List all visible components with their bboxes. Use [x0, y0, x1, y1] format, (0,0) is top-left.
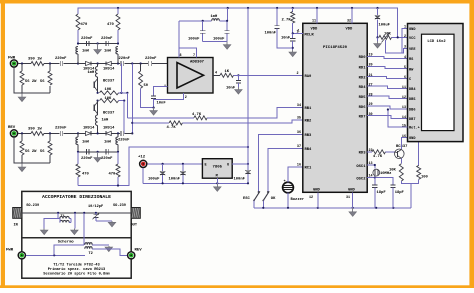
svg-text:3: 3	[404, 46, 406, 50]
svg-text:Schermo: Schermo	[58, 240, 75, 245]
svg-text:220nF: 220nF	[118, 138, 130, 142]
ground bias REV	[94, 152, 102, 162]
svg-text:100nF: 100nF	[213, 38, 225, 42]
svg-text:2: 2	[296, 72, 298, 76]
ground T1 left	[40, 229, 48, 235]
svg-text:RB2: RB2	[305, 120, 313, 124]
crystal X1 10MHz	[373, 169, 392, 176]
wire +5V top rail	[78, 7, 398, 38]
connector SO-239 IN	[13, 204, 39, 228]
svg-text:50: 50	[144, 84, 149, 88]
ground AD8307 supply	[203, 42, 231, 50]
wire buzzer to RC1	[288, 167, 303, 208]
svg-text:1mH: 1mH	[82, 141, 90, 145]
ground 10nF pin1	[150, 108, 158, 116]
svg-text:6: 6	[404, 76, 406, 80]
wire FWR to attenuator	[14, 62, 50, 93]
svg-text:100nF: 100nF	[169, 177, 181, 181]
svg-text:220nF: 220nF	[145, 57, 157, 61]
wire bottom ground rail	[254, 207, 411, 209]
connector SO-239 OUT	[113, 204, 140, 228]
pin GND 12	[309, 189, 321, 208]
wire AD8307 supply	[179, 21, 197, 58]
resistor 4.7K RB1 label	[192, 113, 202, 117]
pin RD7 30 wire to LCD	[359, 113, 408, 120]
svg-text:REV: REV	[135, 249, 143, 253]
svg-text:29: 29	[369, 103, 373, 107]
wire T2 to REV connector	[92, 249, 127, 256]
svg-text:RD0: RD0	[359, 56, 367, 60]
microcontroller U1 PIC18F4520	[303, 23, 367, 192]
pin GND 31	[346, 189, 356, 208]
capacitor 100uF input	[148, 164, 165, 183]
svg-text:220nF: 220nF	[101, 37, 113, 41]
resistor 2.7K MCLR pullup	[282, 12, 295, 31]
svg-text:220nF: 220nF	[101, 157, 113, 161]
connector +12V input	[138, 155, 147, 167]
svg-text:35: 35	[297, 116, 301, 120]
svg-text:RD3: RD3	[359, 152, 367, 156]
ground attenuator FWR	[18, 94, 26, 102]
svg-text:REV: REV	[8, 126, 16, 130]
svg-text:10nF: 10nF	[281, 37, 291, 41]
svg-text:56: 56	[40, 150, 45, 154]
pin RD3 22	[359, 149, 373, 156]
capacitor 10nF AD8307 pin1	[151, 96, 166, 109]
svg-text:RB3: RB3	[305, 134, 313, 138]
svg-text:RD4: RD4	[359, 86, 367, 90]
switch ESC	[243, 191, 260, 208]
svg-text:T1/T2 Toroide FT82-43: T1/T2 Toroide FT82-43	[53, 262, 100, 267]
ground 10nF output	[235, 83, 243, 94]
shield divider Schermo	[22, 238, 131, 245]
connector FWR (forward)	[8, 56, 18, 67]
directional coupler enclosure	[22, 191, 131, 278]
ground power supply	[214, 183, 222, 191]
resistor 56 2W shunt FWR	[20, 71, 37, 85]
transformer T1 primary	[58, 213, 75, 229]
svg-text:10nF: 10nF	[226, 87, 236, 91]
svg-text:470: 470	[81, 23, 89, 27]
svg-text:4.7K: 4.7K	[373, 155, 383, 159]
regulator U3 7805	[202, 159, 232, 179]
LCD pin DB6 13	[402, 106, 416, 112]
capacitor 220nF to AD8307	[145, 57, 168, 66]
capacitor 18pF OSC2	[390, 185, 404, 208]
svg-text:10K: 10K	[105, 88, 113, 92]
LCD pin GND 16	[402, 135, 416, 141]
resistor 1K output	[220, 70, 239, 78]
wire bias node REV	[77, 151, 119, 153]
svg-text:2.7K: 2.7K	[282, 18, 292, 22]
svg-text:ESC: ESC	[243, 197, 251, 201]
svg-text:20: 20	[369, 64, 373, 68]
wire backlight to ground rail	[410, 184, 412, 208]
resistor 100 backlight	[411, 140, 428, 184]
svg-text:4: 4	[404, 56, 406, 60]
svg-text:OSC2: OSC2	[356, 177, 366, 181]
wire output to RA0	[234, 74, 303, 76]
diode 1N914 FWR left	[78, 61, 106, 71]
capacitor trimmer 10/12pF	[88, 204, 112, 221]
switch OK	[262, 191, 276, 208]
wire coupler center conductor	[22, 212, 131, 214]
inductor 1mH REV left	[76, 133, 90, 151]
svg-text:1mH: 1mH	[102, 119, 110, 123]
svg-text:GND: GND	[409, 28, 416, 32]
wire AD8307 pin1	[154, 85, 168, 96]
connector FWR coupler	[6, 245, 85, 259]
svg-text:16: 16	[297, 164, 301, 168]
capacitor 10nF output	[226, 75, 241, 90]
ground T1 right	[71, 229, 79, 235]
diode 1N914 REV left	[78, 127, 106, 136]
svg-text:RD1: RD1	[359, 66, 367, 70]
pin RB2 35	[297, 116, 312, 123]
svg-text:T2: T2	[89, 252, 93, 256]
inductor 1mH FWR left	[76, 47, 90, 64]
svg-text:14: 14	[402, 116, 406, 120]
svg-text:Secondario 20 spire Filo 0,8mm: Secondario 20 spire Filo 0,8mm	[43, 271, 110, 276]
svg-text:4.7K: 4.7K	[192, 113, 202, 117]
svg-text:ACCOPPIATORE DIREZIONALE: ACCOPPIATORE DIREZIONALE	[42, 194, 111, 200]
wire center line to T2	[83, 213, 85, 245]
svg-text:12: 12	[402, 96, 406, 100]
svg-text:21: 21	[369, 74, 373, 78]
svg-text:RD5: RD5	[359, 96, 367, 100]
inductor 1mH AD8307 supply	[179, 8, 228, 22]
svg-text:2: 2	[185, 96, 187, 100]
svg-text:13: 13	[402, 106, 406, 110]
svg-text:RD7: RD7	[359, 115, 367, 119]
svg-text:7: 7	[193, 54, 195, 58]
capacitor 100nF AD8307 supply right	[213, 20, 230, 42]
potentiometer 10K contrast	[379, 32, 408, 53]
svg-text:1N914: 1N914	[103, 68, 115, 72]
capacitor 220nF FWR output	[119, 57, 149, 66]
svg-text:SO-239: SO-239	[26, 204, 39, 208]
svg-text:FWR: FWR	[8, 56, 16, 60]
resistor 4.7K RB2 label	[167, 126, 177, 130]
ground bias FWR	[94, 44, 102, 55]
svg-text:PIC18F4520: PIC18F4520	[323, 46, 348, 50]
wire collector to LCD GND pin16	[401, 138, 407, 150]
svg-text:37: 37	[297, 145, 301, 149]
transistor Q3 BC337 backlight	[395, 145, 409, 158]
svg-text:10MHz: 10MHz	[380, 172, 391, 176]
LCD pin RW 5	[404, 66, 414, 72]
capacitor 220nF bias FWR left	[81, 37, 93, 46]
svg-text:RB1: RB1	[305, 107, 313, 111]
svg-text:DB6: DB6	[409, 109, 415, 113]
svg-text:OUT: OUT	[131, 223, 138, 227]
connector REV (reflected)	[8, 126, 18, 137]
resistor 470 bias FWR left	[76, 8, 88, 44]
LCD pin DB5 12	[402, 96, 416, 102]
wire crystal to caps	[374, 177, 376, 185]
resistor 4.7K backlight base	[367, 150, 394, 159]
svg-text:11: 11	[402, 86, 406, 90]
svg-text:1mH: 1mH	[104, 50, 112, 54]
svg-text:RB4: RB4	[305, 148, 313, 152]
svg-text:FWR: FWR	[6, 249, 14, 253]
svg-text:1N914: 1N914	[83, 127, 95, 131]
svg-text:U: U	[227, 164, 229, 168]
svg-text:100nF: 100nF	[265, 32, 277, 36]
resistor 390 1W series FWR	[28, 58, 60, 66]
resistor 470 bias FWR right	[107, 8, 120, 44]
wire RB3 to ESC	[259, 135, 303, 193]
svg-text:30: 30	[369, 113, 373, 117]
svg-text:2: 2	[404, 35, 406, 39]
resistor 10K base Q1	[97, 88, 129, 95]
svg-text:100uF: 100uF	[379, 24, 391, 28]
wire 7805 ground pin	[216, 178, 218, 183]
pin RD6 29 wire to LCD	[359, 103, 408, 110]
capacitor 220nF REV input	[55, 127, 84, 136]
pin RD2 21 wire to LCD	[359, 74, 408, 81]
capacitor 100nF input	[169, 164, 186, 183]
svg-text:4.7K: 4.7K	[167, 126, 177, 130]
svg-text:5: 5	[404, 66, 406, 70]
capacitor 100uF LCD supply	[375, 8, 391, 39]
svg-text:VEE: VEE	[409, 48, 416, 52]
wire common detector output	[131, 64, 133, 135]
svg-text:36: 36	[297, 131, 301, 135]
transformer T2	[85, 243, 93, 256]
capacitor 220nF REV output	[118, 131, 132, 143]
svg-text:31: 31	[346, 196, 350, 200]
svg-text:LCD 16x2: LCD 16x2	[427, 40, 446, 44]
capacitor 100nF output	[234, 164, 251, 183]
inductor 1mH switch bottom	[96, 115, 110, 133]
svg-text:10/12pF: 10/12pF	[88, 204, 103, 209]
resistor 56 shunt REV	[40, 133, 52, 155]
svg-text:SO-239: SO-239	[113, 204, 126, 208]
wire RD6 branch to Ret pin15	[387, 108, 408, 127]
capacitor 100nF AD8307 supply left	[188, 21, 205, 42]
inductor 1mH switch top	[88, 64, 98, 78]
LCD pin RS 4	[404, 56, 414, 62]
svg-text:BC337: BC337	[103, 112, 115, 116]
pin RD1 20 wire to LCD	[359, 64, 408, 71]
svg-text:470: 470	[109, 173, 117, 177]
svg-text:DB4: DB4	[409, 88, 416, 92]
svg-text:220nF: 220nF	[55, 127, 67, 131]
capacitor 220nF bias REV right	[101, 149, 113, 161]
wire line RB2	[132, 120, 302, 125]
resistor 56 2W shunt REV	[20, 141, 37, 155]
svg-text:18pF: 18pF	[377, 191, 387, 195]
wire VDD pin 32	[346, 8, 354, 31]
wire MCLR node	[292, 8, 303, 34]
svg-text:RC1: RC1	[305, 167, 313, 171]
svg-text:VDD: VDD	[346, 27, 354, 31]
capacitor 18pF OSC1	[372, 185, 386, 208]
wire base line A riser	[126, 93, 128, 118]
svg-text:100uF: 100uF	[148, 177, 160, 181]
ground trimmer	[108, 221, 116, 227]
svg-text:100nF: 100nF	[188, 38, 200, 42]
resistor 56 shunt FWR	[40, 64, 52, 86]
svg-text:27: 27	[369, 83, 373, 87]
label ACCOPPIATORE DIREZIONALE	[42, 194, 111, 200]
svg-text:220nF: 220nF	[81, 157, 93, 161]
wire line RB1	[127, 108, 302, 120]
svg-text:16: 16	[402, 135, 406, 139]
inductor 1mH REV right	[104, 133, 118, 151]
svg-text:10nF: 10nF	[157, 102, 167, 106]
svg-text:+12: +12	[138, 155, 146, 159]
svg-text:34: 34	[297, 104, 301, 108]
wire VDD pin 11	[311, 8, 319, 31]
ground contrast	[374, 37, 382, 48]
transistor Q2 BC337	[94, 101, 115, 116]
svg-text:15: 15	[402, 124, 406, 128]
svg-text:RD6: RD6	[359, 106, 367, 110]
svg-text:28: 28	[369, 93, 373, 97]
svg-text:DB5: DB5	[409, 98, 415, 102]
diode 1N914 FWR right	[103, 61, 120, 71]
svg-text:56 2W: 56 2W	[25, 80, 37, 84]
svg-text:56: 56	[40, 80, 45, 84]
svg-text:1: 1	[404, 26, 406, 30]
svg-text:220nF: 220nF	[55, 57, 67, 61]
svg-text:1: 1	[298, 30, 300, 34]
svg-text:Ret.+: Ret.+	[409, 127, 420, 131]
LCD pin Ret.+ 15	[402, 124, 420, 130]
wire OSC1	[367, 164, 376, 168]
capacitor 220nF bias REV left	[81, 149, 93, 161]
svg-text:220nF: 220nF	[119, 57, 131, 61]
svg-text:+: +	[284, 180, 286, 184]
svg-text:11: 11	[312, 19, 316, 23]
pin RB3 36	[297, 131, 312, 138]
wire FWR node to 10K	[120, 64, 122, 93]
svg-text:8: 8	[180, 54, 182, 58]
capacitor 220nF bias FWR right	[101, 37, 113, 46]
svg-text:1mH: 1mH	[104, 141, 112, 145]
svg-text:390 1W: 390 1W	[28, 127, 42, 131]
wire REV bias to +5V	[78, 146, 249, 187]
op-amp U2 AD8307	[168, 58, 214, 94]
LCD pin DB4 11	[402, 86, 416, 92]
diode 1N914 REV right	[103, 127, 120, 136]
LCD pin C 6	[404, 76, 412, 82]
svg-text:AD8307: AD8307	[190, 61, 205, 65]
svg-text:12: 12	[309, 196, 313, 200]
capacitor 100nF VDD	[265, 8, 293, 48]
svg-text:BC337: BC337	[396, 145, 408, 149]
wire bias node FWR	[77, 42, 119, 44]
svg-text:1mH: 1mH	[82, 50, 90, 54]
svg-text:1mH: 1mH	[211, 15, 219, 19]
wire +5 riser	[247, 8, 249, 164]
svg-text:470: 470	[82, 173, 90, 177]
svg-text:DB7: DB7	[409, 118, 415, 122]
svg-text:GND: GND	[348, 189, 356, 193]
svg-text:OK: OK	[271, 197, 276, 201]
svg-text:RA0: RA0	[305, 75, 313, 79]
ground bottom rail	[349, 208, 357, 217]
svg-text:1N914: 1N914	[103, 127, 115, 131]
svg-text:470: 470	[107, 23, 115, 27]
capacitor 220nF FWR input	[55, 57, 84, 66]
resistor 10K base Q2	[97, 97, 126, 103]
svg-text:19: 19	[369, 54, 373, 58]
transistor Q1 BC337	[94, 77, 115, 93]
svg-text:7805: 7805	[212, 166, 222, 170]
pin RD4 27 wire to LCD	[359, 83, 408, 90]
svg-text:1mH: 1mH	[88, 71, 96, 75]
svg-text:10K: 10K	[389, 169, 397, 173]
svg-text:Primario spezz. cavo RG213: Primario spezz. cavo RG213	[48, 267, 106, 272]
svg-text:56 2W: 56 2W	[25, 150, 37, 154]
svg-text:32: 32	[347, 19, 351, 23]
display LCD 16x2	[408, 24, 464, 142]
wire 7805 output	[232, 163, 249, 165]
wire REV to attenuator	[14, 132, 50, 163]
pin OSC1 13	[356, 162, 372, 169]
svg-text:VCC: VCC	[409, 37, 416, 41]
svg-text:IN: IN	[14, 223, 18, 227]
wire LCD GND pin1	[402, 28, 408, 53]
resistor 470 bias REV left	[76, 152, 90, 186]
pin RD5 28 wire to LCD	[359, 93, 408, 100]
svg-text:18pF: 18pF	[395, 191, 405, 195]
svg-text:1K: 1K	[225, 70, 230, 74]
transformer T1 secondary	[44, 216, 71, 228]
buzzer BZ1	[283, 180, 305, 202]
wire +12 to 7805	[143, 163, 202, 184]
inductor 1mH FWR right	[104, 47, 118, 64]
svg-text:Buzzer: Buzzer	[291, 197, 305, 202]
wire RB4 to OK	[268, 149, 303, 193]
wire AD8307 output pin4	[213, 71, 220, 75]
svg-text:MCLR: MCLR	[305, 33, 315, 37]
svg-text:10K: 10K	[105, 97, 113, 101]
ground T2	[92, 245, 113, 252]
LCD pin VEE 3	[404, 46, 416, 52]
pin RC1 16	[297, 164, 312, 171]
capacitor 10nF MCLR	[281, 33, 295, 50]
ground attenuator REV	[18, 164, 26, 172]
pin RB4 37	[297, 145, 312, 152]
LCD pin VCC 2	[404, 35, 416, 41]
svg-text:4: 4	[215, 71, 217, 75]
resistor 10K backlight	[389, 159, 411, 184]
svg-text:VDD: VDD	[311, 27, 319, 31]
svg-text:OSC1: OSC1	[356, 165, 366, 169]
svg-text:GND: GND	[409, 137, 416, 141]
svg-text:GND: GND	[313, 189, 321, 193]
svg-text:M: M	[216, 175, 218, 179]
ground MCLR cap	[289, 50, 297, 57]
wire power ground rail	[143, 182, 249, 184]
label toroid winding notes	[43, 262, 110, 276]
LCD pin DB7 14	[402, 116, 416, 122]
wire AD8307 pin2	[154, 93, 187, 100]
svg-text:390 1W: 390 1W	[28, 58, 42, 62]
pin MCLR 1	[296, 30, 314, 37]
pin RB1 34	[297, 104, 312, 111]
pin RD0 19 wire to LCD	[359, 54, 408, 61]
connector REV coupler	[128, 249, 143, 259]
svg-text:100: 100	[421, 175, 429, 179]
svg-text:100nF: 100nF	[234, 177, 246, 181]
svg-text:220nF: 220nF	[81, 37, 93, 41]
wire OSC2	[367, 176, 393, 184]
